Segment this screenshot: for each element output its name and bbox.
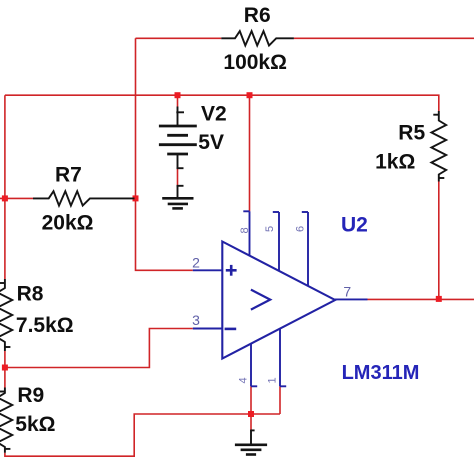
svg-text:LM311M: LM311M (342, 362, 420, 384)
svg-text:1kΩ: 1kΩ (375, 151, 415, 174)
svg-text:3: 3 (192, 312, 200, 328)
svg-text:R9: R9 (17, 384, 44, 407)
svg-text:5kΩ: 5kΩ (15, 413, 55, 436)
svg-text:6: 6 (295, 226, 307, 232)
svg-text:V2: V2 (201, 102, 227, 125)
svg-text:R6: R6 (244, 4, 271, 27)
svg-text:4: 4 (238, 377, 250, 383)
svg-text:7: 7 (343, 283, 351, 299)
svg-text:R8: R8 (17, 283, 44, 306)
svg-text:R5: R5 (398, 121, 425, 144)
svg-text:8: 8 (239, 227, 251, 233)
svg-text:R7: R7 (55, 163, 82, 186)
svg-text:U2: U2 (341, 213, 368, 236)
svg-text:100kΩ: 100kΩ (223, 51, 287, 74)
svg-text:2: 2 (192, 255, 200, 271)
svg-text:5V: 5V (198, 131, 224, 154)
svg-text:7.5kΩ: 7.5kΩ (16, 314, 74, 337)
svg-text:20kΩ: 20kΩ (42, 212, 94, 235)
svg-text:5: 5 (264, 226, 276, 232)
svg-text:1: 1 (267, 377, 279, 383)
